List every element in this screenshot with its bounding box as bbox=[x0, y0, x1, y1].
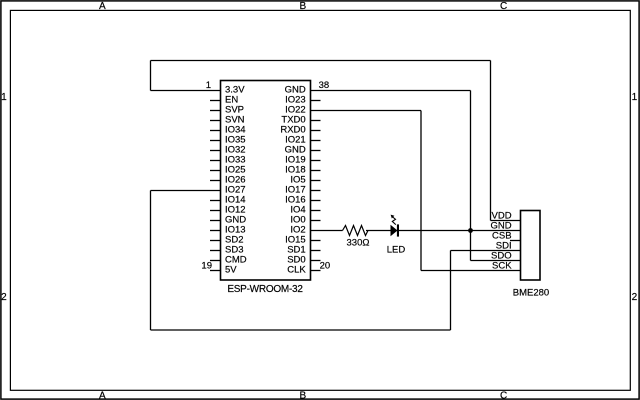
wire GND pin38 run bbox=[311, 90, 471, 92]
wire 3.3V drop to VDD bbox=[490, 61, 492, 221]
pin IO25 bbox=[210, 165, 246, 176]
svg-text:38: 38 bbox=[319, 80, 330, 91]
pin IO13 bbox=[210, 225, 246, 236]
svg-text:1: 1 bbox=[206, 80, 211, 91]
wire LED to BME280 GND bbox=[399, 230, 521, 232]
svg-text:A: A bbox=[99, 390, 106, 400]
wire SCK stub bbox=[421, 270, 521, 272]
resistor R1 330 ohm bbox=[343, 226, 369, 236]
pin IO22 bbox=[285, 105, 306, 116]
pin SD3 bbox=[210, 245, 243, 256]
wire SDI stub bbox=[451, 250, 521, 252]
LED D1 bbox=[391, 215, 400, 237]
pin IO14 bbox=[210, 195, 246, 206]
svg-text:2: 2 bbox=[632, 292, 638, 303]
wire GND drop bbox=[470, 91, 472, 261]
pin GND left bbox=[210, 215, 246, 226]
pin GND right2 bbox=[285, 145, 321, 156]
pin IO23 bbox=[285, 95, 320, 106]
BME280 pin VDD bbox=[492, 211, 512, 222]
svg-text:19: 19 bbox=[201, 261, 212, 272]
wire 3.3V pin to riser bbox=[151, 90, 221, 92]
svg-text:20: 20 bbox=[320, 261, 331, 272]
svg-text:5V: 5V bbox=[225, 265, 237, 276]
BME280 pin GND bbox=[490, 221, 511, 232]
wire IO2 to resistor bbox=[311, 230, 343, 232]
BME280 pin SDI bbox=[496, 241, 512, 252]
BME280 sensor body bbox=[521, 211, 541, 281]
pin IO33 bbox=[210, 155, 246, 166]
pin IO4 bbox=[290, 205, 320, 216]
wire CSB stub bbox=[510, 240, 521, 242]
pin CMD bbox=[210, 255, 247, 266]
svg-text:1: 1 bbox=[632, 92, 638, 103]
pin SD2 bbox=[210, 235, 243, 246]
pin SD0 bbox=[287, 255, 320, 266]
svg-text:330Ω: 330Ω bbox=[347, 238, 370, 249]
pin SVP bbox=[210, 105, 244, 116]
wire IO27 run bbox=[151, 190, 221, 192]
pin IO19 bbox=[285, 155, 320, 166]
svg-text:A: A bbox=[99, 1, 106, 12]
label ESP-WROOM-32 bbox=[227, 284, 303, 295]
wire 3.3V top run bbox=[151, 60, 491, 62]
pin SVN bbox=[210, 115, 245, 126]
pin IO15 bbox=[285, 235, 320, 246]
pin TXD0 bbox=[281, 115, 320, 126]
svg-text:1: 1 bbox=[1, 92, 7, 103]
svg-text:SCK: SCK bbox=[492, 261, 512, 272]
pin IO0 bbox=[290, 215, 320, 226]
pin IO26 bbox=[210, 175, 246, 186]
wire IO27 drop bbox=[150, 191, 152, 331]
wire bottom run bbox=[151, 329, 451, 331]
ESP-WROOM-32 module U1 body bbox=[221, 81, 311, 281]
pin IO34 bbox=[210, 125, 246, 136]
svg-text:2: 2 bbox=[1, 292, 7, 303]
pin 20 CLK bbox=[287, 261, 330, 276]
pin IO32 bbox=[210, 145, 246, 156]
pin 1 3.3V bbox=[206, 80, 246, 96]
junction GND net bbox=[468, 228, 473, 233]
BME280 pin SCK bbox=[492, 261, 512, 272]
svg-text:B: B bbox=[299, 1, 306, 12]
svg-text:BME280: BME280 bbox=[513, 288, 549, 299]
BME280 pin SDO bbox=[491, 251, 512, 262]
svg-text:ESP-WROOM-32: ESP-WROOM-32 bbox=[227, 284, 303, 295]
svg-text:C: C bbox=[500, 390, 507, 400]
label BME280 bbox=[513, 288, 549, 299]
pin 38 GND right bbox=[285, 80, 330, 96]
svg-text:CLK: CLK bbox=[287, 265, 306, 276]
BME280 pin CSB bbox=[492, 231, 512, 242]
pin IO21 bbox=[285, 135, 320, 146]
wire VDD stub bbox=[491, 220, 521, 222]
svg-text:C: C bbox=[500, 1, 507, 12]
svg-text:B: B bbox=[299, 390, 306, 400]
wire SDI riser bbox=[450, 251, 452, 331]
wire SDO stub bbox=[471, 260, 521, 262]
pin IO35 bbox=[210, 135, 246, 146]
pin RXD0 bbox=[280, 125, 320, 136]
pin IO2 bbox=[290, 225, 305, 236]
pin IO18 bbox=[285, 165, 320, 176]
pin IO5 bbox=[290, 175, 320, 186]
pin IO27 bbox=[225, 185, 246, 196]
label LED bbox=[387, 245, 406, 256]
wire IO22 drop bbox=[420, 111, 422, 271]
wire 3.3V riser up bbox=[150, 61, 152, 91]
pin IO17 bbox=[285, 185, 320, 196]
pin EN bbox=[210, 95, 238, 106]
svg-text:LED: LED bbox=[387, 245, 406, 256]
pin SD1 bbox=[287, 245, 320, 256]
pin IO12 bbox=[210, 205, 246, 216]
pin IO16 bbox=[285, 195, 320, 206]
wire IO22 run bbox=[311, 110, 422, 112]
value 330Ω bbox=[347, 238, 370, 249]
wire resistor to LED bbox=[366, 230, 391, 232]
pin 19 5V bbox=[201, 261, 237, 276]
